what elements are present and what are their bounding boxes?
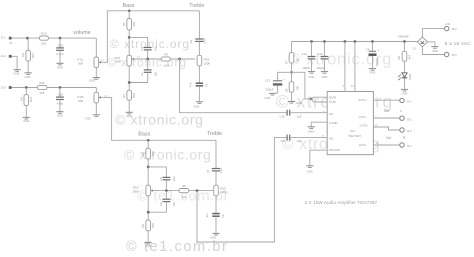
svg-text:Out: Out <box>384 109 389 113</box>
resistor R3 <box>161 57 170 61</box>
wire OUT2- <box>373 144 399 146</box>
junction <box>146 58 149 61</box>
svg-text:X1: X1 <box>413 47 417 51</box>
resistor R7 <box>291 42 293 53</box>
svg-text:L: L <box>400 109 402 113</box>
svg-text:+: + <box>284 78 286 82</box>
wire <box>290 112 327 114</box>
resistor R5 <box>146 220 151 231</box>
node A junction <box>290 71 293 74</box>
capacitor C2 <box>147 59 149 70</box>
svg-text:GND: GND <box>85 116 91 120</box>
junction <box>59 37 62 40</box>
svg-text:GND: GND <box>308 129 314 133</box>
svg-text:100K: 100K <box>115 60 122 64</box>
connector J3-1 <box>400 98 404 102</box>
svg-text:C12: C12 <box>318 52 324 56</box>
svg-text:56K: 56K <box>132 21 136 26</box>
wire ST-BY/MUTE <box>292 72 312 99</box>
svg-text:ST-BY: ST-BY <box>329 101 337 104</box>
svg-text:GND: GND <box>265 96 271 100</box>
svg-text:100K: 100K <box>220 190 227 194</box>
svg-text:GND: GND <box>145 244 151 248</box>
junction <box>165 189 168 192</box>
capacitor C9 electrolytic <box>372 42 374 52</box>
wire <box>427 41 435 43</box>
svg-text:47n: 47n <box>189 82 193 87</box>
svg-text:IN1: IN1 <box>329 112 334 116</box>
svg-text:C7: C7 <box>206 169 210 173</box>
junction <box>403 40 406 43</box>
svg-text:KBU606: KBU606 <box>399 34 410 38</box>
ground <box>431 46 438 48</box>
junction <box>26 37 29 40</box>
junction <box>128 81 131 84</box>
svg-text:MUTE: MUTE <box>329 96 336 99</box>
svg-text:Bass: Bass <box>138 131 150 137</box>
wire <box>128 66 130 90</box>
junction <box>310 40 313 43</box>
potentiometer P1/5 <box>95 88 97 93</box>
svg-text:TDA7297: TDA7297 <box>348 134 361 138</box>
svg-text:1K5: 1K5 <box>39 91 45 95</box>
wire <box>12 37 97 39</box>
resistor R8 <box>289 82 294 93</box>
capacitor C1 <box>129 37 148 47</box>
svg-text:10K: 10K <box>295 86 299 91</box>
ground <box>212 232 219 234</box>
svg-text:OUT2-: OUT2- <box>359 143 367 147</box>
wire <box>25 106 27 118</box>
svg-text:10K: 10K <box>295 58 299 63</box>
wire VCC1 pin 3 <box>344 42 346 92</box>
wire <box>422 47 444 55</box>
junction <box>178 58 181 61</box>
power rail wire <box>292 41 418 43</box>
resistor R2 <box>127 90 132 100</box>
resistor R10 <box>39 36 48 40</box>
potentiometer P2/2 <box>146 185 151 196</box>
svg-text:OUT2+: OUT2+ <box>360 123 369 127</box>
svg-text:GND: GND <box>126 114 132 118</box>
svg-text:10K: 10K <box>164 64 169 68</box>
svg-text:GND: GND <box>210 235 216 239</box>
potentiometer P3/2 <box>214 189 216 192</box>
potentiometer P2/1 <box>127 55 132 66</box>
svg-text:J5-1: J5-1 <box>452 53 458 57</box>
svg-text:100nF: 100nF <box>317 66 325 70</box>
svg-text:100K: 100K <box>132 190 139 194</box>
svg-text:4K7: 4K7 <box>408 54 412 59</box>
svg-text:+VD: +VD <box>445 22 450 26</box>
ground <box>306 165 313 167</box>
svg-text:IN: IN <box>10 41 13 45</box>
capacitor C13 <box>278 72 292 80</box>
wiper wire <box>132 58 162 60</box>
svg-text:© xtronic.org: © xtronic.org <box>124 147 211 163</box>
capacitor C16 <box>59 88 61 97</box>
ground <box>56 111 63 113</box>
junction <box>344 40 347 43</box>
capacitor C8 <box>215 196 217 213</box>
svg-text:56K: 56K <box>151 151 155 156</box>
wire <box>147 231 149 242</box>
svg-text:© xtronic.org: © xtronic.org <box>110 37 190 51</box>
resistor R13 <box>25 88 27 95</box>
junction <box>196 189 199 192</box>
svg-text:© te1.com.br: © te1.com.br <box>126 239 228 255</box>
svg-text:R5: R5 <box>141 223 145 227</box>
svg-text:LED1: LED1 <box>408 73 412 80</box>
svg-text:PW-GND: PW-GND <box>329 148 340 152</box>
svg-text:C5: C5 <box>159 177 163 181</box>
ground <box>369 68 376 70</box>
svg-text:GND: GND <box>370 70 376 74</box>
svg-text:10K: 10K <box>182 195 187 199</box>
capacitor C3 <box>198 11 200 39</box>
svg-text:C8: C8 <box>221 214 225 218</box>
connector J3-2 <box>400 116 404 120</box>
svg-text:2.2n: 2.2n <box>202 38 206 44</box>
wire <box>95 103 97 115</box>
svg-text:R8: R8 <box>284 88 288 92</box>
svg-text:R7: R7 <box>284 60 288 64</box>
svg-text:220µF: 220µF <box>266 87 274 91</box>
ground <box>269 92 276 94</box>
svg-text:volume: volume <box>73 30 90 36</box>
capacitor C6 <box>165 191 167 199</box>
svg-text:OUT1-: OUT1- <box>359 115 367 119</box>
capacitor C5 <box>148 167 166 177</box>
svg-text:10n: 10n <box>172 202 176 207</box>
svg-text:C13: C13 <box>265 79 271 83</box>
wire <box>180 59 287 113</box>
svg-text:R3: R3 <box>164 53 168 57</box>
svg-text:GND: GND <box>89 79 95 83</box>
svg-text:GND: GND <box>307 169 313 173</box>
svg-text:GND: GND <box>57 114 63 118</box>
potentiometer P3/1 <box>197 58 199 61</box>
ground <box>145 241 152 243</box>
connector J4-1 <box>400 143 404 147</box>
svg-text:GND: GND <box>23 119 29 123</box>
svg-text:8 a 18 VAC: 8 a 18 VAC <box>445 41 472 47</box>
svg-text:GND: GND <box>402 92 408 96</box>
wire <box>95 68 97 78</box>
svg-text:50K: 50K <box>78 62 83 66</box>
svg-text:S-GND: S-GND <box>329 121 337 125</box>
resistor R12 <box>27 38 29 50</box>
svg-text:GND: GND <box>193 105 199 109</box>
junction <box>147 139 150 142</box>
svg-text:56K: 56K <box>132 93 136 98</box>
svg-text:1K5: 1K5 <box>41 41 47 45</box>
svg-text:C15: C15 <box>58 43 64 47</box>
svg-text:50K: 50K <box>78 99 83 103</box>
svg-text:C3: C3 <box>189 39 193 43</box>
wire <box>147 159 149 185</box>
wire <box>422 29 444 37</box>
svg-text:3: 3 <box>342 86 344 88</box>
svg-text:J3-2: J3-2 <box>407 117 413 121</box>
junction <box>128 9 131 12</box>
capacitor C14 <box>311 42 313 57</box>
svg-text:OUT1+: OUT1+ <box>358 98 367 102</box>
svg-text:IC1: IC1 <box>350 129 355 133</box>
svg-text:10n: 10n <box>153 72 157 77</box>
svg-text:C10: C10 <box>279 114 285 118</box>
junction <box>128 36 131 39</box>
svg-text:J1-1: J1-1 <box>1 36 7 40</box>
svg-text:J1-5: J1-5 <box>1 85 7 89</box>
svg-text:22n: 22n <box>153 46 157 51</box>
wire OUT1+ <box>373 99 399 101</box>
svg-text:56K: 56K <box>151 223 155 228</box>
svg-text:R11: R11 <box>39 81 44 85</box>
svg-text:1M: 1M <box>21 52 25 57</box>
svg-text:J4-1: J4-1 <box>407 144 413 148</box>
svg-text:GND: GND <box>14 72 20 76</box>
capacitor C12 <box>324 42 326 57</box>
svg-text:R2: R2 <box>122 94 126 98</box>
junction <box>323 40 326 43</box>
svg-text:22n: 22n <box>172 176 176 181</box>
svg-text:C16: C16 <box>58 93 64 97</box>
svg-text:J5-2: J5-2 <box>452 27 458 31</box>
junction <box>371 40 374 43</box>
svg-text:13: 13 <box>351 86 354 88</box>
wire <box>197 138 287 242</box>
svg-text:R13: R13 <box>29 96 33 102</box>
svg-text:C1: C1 <box>140 47 144 51</box>
svg-text:Bass: Bass <box>123 3 135 9</box>
resistor R11 <box>37 85 47 89</box>
ground <box>25 72 32 74</box>
wire S-GND <box>311 122 327 126</box>
potentiometer P1/1 <box>95 38 97 57</box>
svg-text:R9: R9 <box>397 56 401 60</box>
svg-text:Treble: Treble <box>189 3 204 9</box>
svg-text:R6: R6 <box>182 184 186 188</box>
ground <box>56 62 63 64</box>
wire VCC2 pin 13 <box>354 42 356 92</box>
svg-text:100nF: 100nF <box>302 66 310 70</box>
capacitor C11 <box>286 135 288 141</box>
wire <box>12 56 18 69</box>
svg-text:GND: GND <box>57 65 63 69</box>
ground <box>126 111 133 113</box>
ground <box>321 71 328 73</box>
wire <box>12 87 97 89</box>
svg-text:GND: GND <box>309 75 315 79</box>
connector J4-2 <box>400 128 404 132</box>
svg-text:47n: 47n <box>205 213 209 218</box>
wire <box>128 100 130 112</box>
svg-text:GND: GND <box>296 101 302 105</box>
LED1 <box>404 61 406 72</box>
wire PW-GND <box>310 150 327 165</box>
connector J5-1 <box>445 52 449 56</box>
svg-text:GND: GND <box>432 49 438 53</box>
svg-text:J3-1: J3-1 <box>407 100 413 104</box>
svg-text:J4-2: J4-2 <box>407 129 413 133</box>
ground <box>93 77 100 79</box>
resistor R4 <box>147 140 149 148</box>
wire <box>290 137 327 139</box>
svg-text:R1: R1 <box>122 22 126 26</box>
svg-text:2.2n: 2.2n <box>219 168 223 174</box>
op-amp IC1 TDA7297 <box>327 92 373 155</box>
svg-text:Treble: Treble <box>207 131 222 137</box>
junction <box>25 86 28 89</box>
wire <box>291 92 293 101</box>
ground <box>23 116 30 118</box>
wire OUT2+ <box>373 127 399 130</box>
wire <box>128 30 130 55</box>
svg-text:GND: GND <box>322 75 328 79</box>
svg-text:C6: C6 <box>159 202 163 206</box>
svg-text:1M: 1M <box>19 96 23 101</box>
svg-text:C4: C4 <box>205 83 209 87</box>
wire <box>112 97 216 140</box>
wire <box>189 190 213 192</box>
junction <box>147 166 150 169</box>
wire <box>404 78 406 89</box>
svg-text:GND: GND <box>25 75 31 79</box>
ground <box>14 69 21 71</box>
svg-text:R12: R12 <box>31 52 35 58</box>
svg-text:J1-3: J1-3 <box>1 54 7 58</box>
wire <box>27 61 29 73</box>
junction <box>354 40 357 43</box>
ground <box>196 101 203 103</box>
svg-text:C11: C11 <box>281 139 286 143</box>
wire <box>170 58 195 60</box>
capacitor C4 <box>198 66 200 83</box>
ground <box>93 114 100 116</box>
svg-text:R10: R10 <box>41 32 47 36</box>
svg-text:2 X 15W Audio Amplifier TDA729: 2 X 15W Audio Amplifier TDA7297 <box>305 200 378 205</box>
svg-text:R: R <box>403 136 406 140</box>
svg-text:C14: C14 <box>302 52 308 56</box>
svg-text:IN2: IN2 <box>329 136 334 140</box>
ground <box>308 71 315 73</box>
svg-text:R4: R4 <box>141 151 145 155</box>
ground <box>401 88 408 90</box>
svg-text:1µF: 1µF <box>297 114 302 118</box>
resistor R9 <box>404 42 406 52</box>
capacitor C7 <box>215 140 217 168</box>
capacitor C15 <box>59 38 61 48</box>
svg-text:2200µF: 2200µF <box>375 57 379 67</box>
svg-text:C2: C2 <box>140 72 144 76</box>
svg-text:1µF: 1µF <box>296 139 301 143</box>
svg-text:100K: 100K <box>204 62 211 66</box>
wire OUT1- <box>373 117 399 119</box>
svg-text:Out: Out <box>386 136 391 140</box>
ground <box>288 101 295 103</box>
resistor R1 <box>128 11 130 19</box>
connector J5-2 <box>445 26 449 30</box>
junction <box>147 211 150 214</box>
wire <box>147 196 149 220</box>
ground <box>308 126 315 128</box>
junction <box>59 86 62 89</box>
resistor R6 <box>179 189 189 193</box>
capacitor C10 <box>286 110 288 116</box>
wire <box>107 11 199 63</box>
wiper wire <box>151 190 180 192</box>
